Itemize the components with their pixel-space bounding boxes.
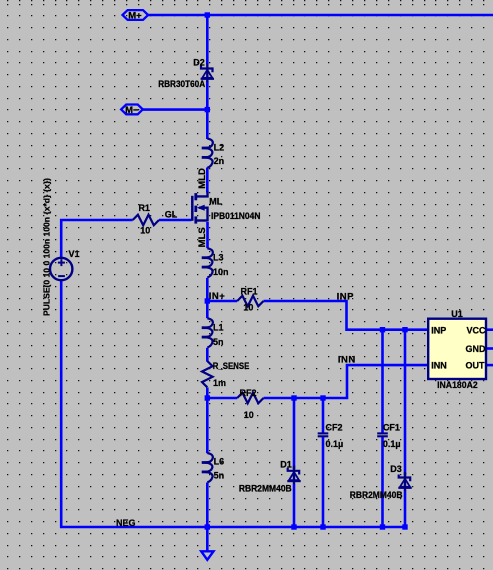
svg-text:OUT: OUT: [466, 361, 486, 371]
svg-text:PULSE(0 10 0 100n 100n {x*d} {: PULSE(0 10 0 100n 100n {x*d} {x}): [42, 178, 51, 316]
wire CF2 branch lower: [322, 437, 325, 527]
svg-text:5n: 5n: [213, 337, 224, 347]
wire CF1 branch upper: [381, 330, 384, 433]
junction rail D3: [402, 524, 407, 529]
svg-text:GND: GND: [466, 344, 487, 354]
svg-text:RBR30T60A: RBR30T60A: [158, 79, 205, 89]
inductor L3: [202, 248, 213, 277]
svg-text:CF2: CF2: [326, 423, 343, 433]
svg-text:INP: INP: [337, 292, 355, 303]
svg-text:1m: 1m: [213, 378, 226, 388]
svg-text:INP: INP: [431, 325, 446, 335]
wire mosfet source to L3: [206, 222, 209, 248]
svg-text:5n: 5n: [214, 470, 225, 480]
wire L2 to mosfet drain: [206, 168, 209, 193]
svg-text:10: 10: [244, 410, 254, 420]
junction top rail: [205, 12, 210, 17]
wire RF2 left stub: [207, 397, 237, 400]
svg-text:MLS: MLS: [197, 227, 208, 247]
svg-text:0.1µ: 0.1µ: [383, 439, 401, 449]
diode D1: [287, 466, 300, 485]
inductor L2: [202, 139, 213, 168]
wire VCC stub: [487, 328, 493, 331]
svg-text:IPB011N04N: IPB011N04N: [211, 211, 261, 221]
ground stub: [206, 527, 209, 551]
svg-text:M−: M−: [125, 105, 139, 116]
inductor L6: [202, 453, 213, 482]
junction D1 top: [291, 395, 296, 400]
svg-text:RBR2MM40B: RBR2MM40B: [239, 483, 292, 493]
diode D3: [398, 472, 411, 491]
wire L1 to R_SENSE: [206, 348, 209, 362]
wire CF2 branch upper: [322, 398, 325, 433]
wire RF1 to INP corner into U1: [264, 301, 429, 330]
resistor RF2: [237, 393, 263, 404]
flag M+: [123, 10, 149, 20]
svg-text:L2: L2: [214, 142, 225, 152]
wire CF1 branch lower: [381, 437, 384, 527]
svg-text:INN: INN: [338, 355, 356, 366]
junction D3 top: [402, 327, 407, 332]
wire RF1 left stub: [207, 300, 237, 303]
wire L3 to L1 through IN+ node: [206, 278, 209, 318]
wire D1 branch upper: [293, 398, 296, 469]
svg-text:ML: ML: [209, 197, 222, 207]
flag M-: [121, 105, 143, 115]
svg-text:L3: L3: [213, 252, 224, 262]
ground: [201, 551, 213, 560]
inductor L1: [202, 318, 213, 347]
junction rail D1: [291, 524, 296, 529]
svg-text:RF2: RF2: [239, 388, 256, 398]
wire GND stub: [487, 347, 493, 350]
junction CF2 top: [320, 395, 325, 400]
wire gate path V1 riser: [61, 220, 133, 258]
svg-text:RBR2MM40B: RBR2MM40B: [350, 490, 403, 500]
svg-text:VCC: VCC: [466, 325, 486, 335]
svg-text:IN+: IN+: [209, 291, 226, 302]
svg-text:10: 10: [140, 225, 150, 235]
wire D1 branch lower: [293, 484, 296, 527]
IC U1: [428, 319, 486, 379]
svg-text:V1: V1: [68, 249, 79, 259]
wire D3 branch upper: [404, 330, 407, 476]
svg-text:INN: INN: [431, 361, 447, 371]
wire OUT stub: [487, 364, 493, 367]
source V1: [50, 258, 72, 280]
wire M- to junction: [142, 108, 207, 111]
junction RF2 node: [205, 395, 210, 400]
capacitor CF2: [318, 433, 329, 436]
svg-text:GL: GL: [165, 210, 178, 220]
svg-text:L1: L1: [213, 322, 224, 332]
svg-text:D2: D2: [193, 58, 205, 68]
resistor RF1: [237, 296, 263, 307]
svg-text:INA180A2: INA180A2: [437, 380, 478, 390]
svg-text:R1: R1: [138, 203, 150, 213]
junction rail CF1: [380, 524, 385, 529]
svg-text:M+: M+: [128, 10, 142, 21]
wire L6 to bottom rail: [206, 483, 209, 528]
transistor ML: [192, 191, 207, 223]
svg-text:D3: D3: [390, 464, 402, 474]
wire V1 bottom to NEG rail corner: [61, 280, 405, 527]
svg-text:CF1: CF1: [383, 423, 400, 433]
wire D3 branch lower: [404, 491, 407, 528]
svg-text:MLD: MLD: [197, 168, 208, 189]
svg-text:NEG: NEG: [116, 518, 136, 528]
svg-text:U1: U1: [451, 309, 463, 319]
wire top rail M+: [147, 14, 493, 17]
diode D2: [201, 63, 214, 82]
wire RF2 to INN corner into U1: [264, 365, 429, 398]
junction CF1 top: [380, 327, 385, 332]
svg-text:2n: 2n: [214, 156, 225, 166]
resistor R1: [133, 215, 159, 226]
svg-text:10: 10: [243, 303, 253, 313]
wire R_SENSE to RF2 node to L6: [206, 388, 209, 454]
wire D2 to M- junction: [206, 81, 209, 139]
junction M-: [205, 107, 210, 112]
junction rail gnd: [205, 524, 210, 529]
junction rail CF2: [320, 524, 325, 529]
wire main vertical above D2: [206, 15, 209, 64]
svg-text:D1: D1: [280, 460, 292, 470]
svg-text:RF1: RF1: [240, 286, 257, 296]
svg-text:L6: L6: [214, 456, 225, 466]
svg-text:10n: 10n: [213, 267, 229, 277]
resistor R_SENSE: [202, 361, 213, 387]
svg-text:R_SENSE: R_SENSE: [213, 361, 250, 371]
capacitor CF1: [377, 433, 388, 436]
wire R1 to gate: [159, 219, 191, 222]
junction IN+: [205, 298, 210, 303]
svg-text:0.1µ: 0.1µ: [326, 439, 344, 449]
